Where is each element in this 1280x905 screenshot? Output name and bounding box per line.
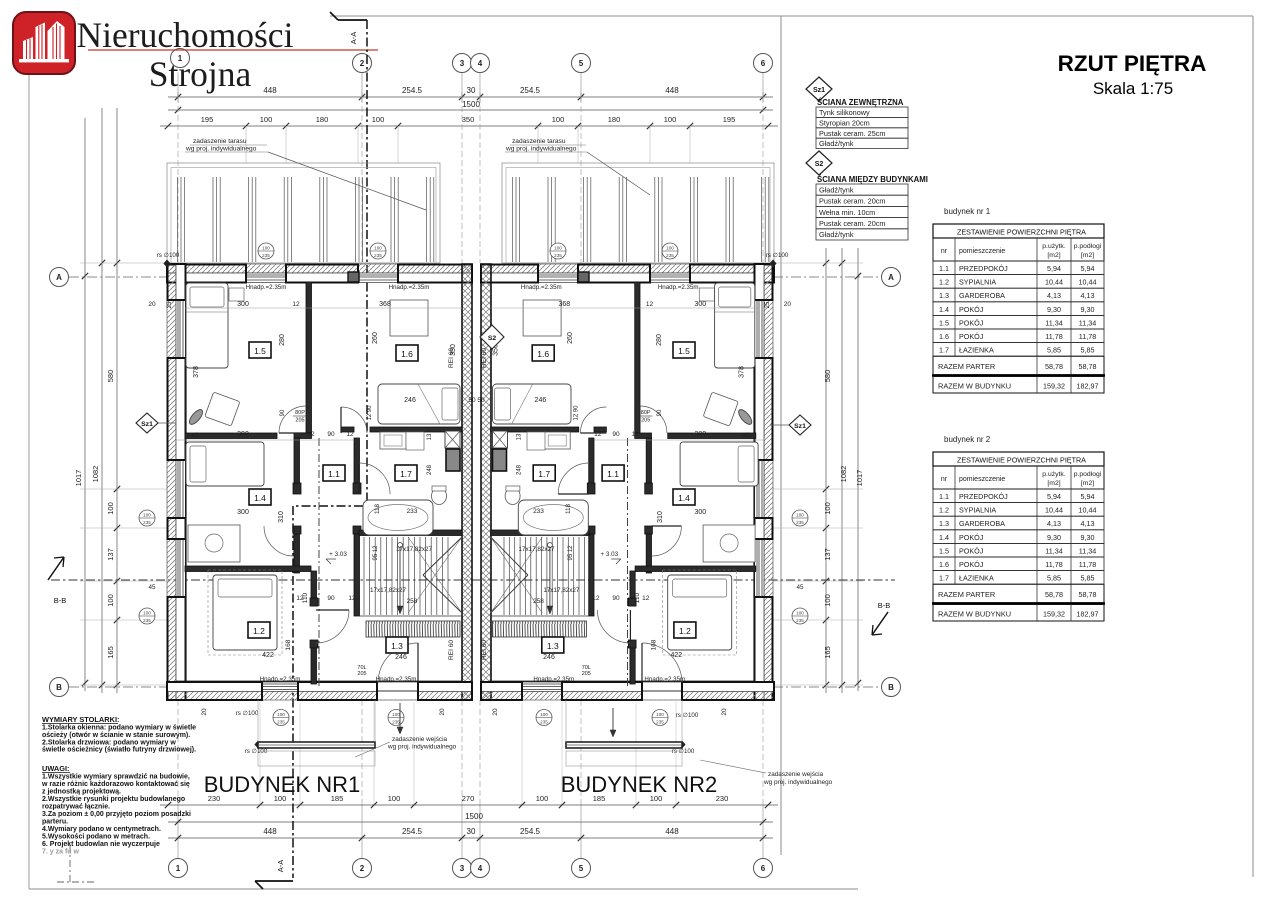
staircase winder chevron building 1 xyxy=(423,537,462,575)
svg-text:parteru.: parteru. xyxy=(42,819,68,826)
svg-text:235: 235 xyxy=(666,253,674,258)
top exterior wall building 1 insulation band xyxy=(167,264,472,273)
svg-text:p.użytk.: p.użytk. xyxy=(1042,471,1066,478)
svg-text:z jednostką projektową.: z jednostką projektową. xyxy=(42,789,121,796)
entrance canopy label building 2 xyxy=(700,760,766,773)
svg-text:378: 378 xyxy=(193,366,200,378)
svg-text:5,85: 5,85 xyxy=(1081,574,1095,583)
svg-text:1.1: 1.1 xyxy=(939,492,949,501)
svg-text:1.2: 1.2 xyxy=(939,506,949,515)
bottom dimension row 1500 xyxy=(168,821,773,823)
logo building icon xyxy=(19,21,69,62)
svg-text:448: 448 xyxy=(665,86,679,95)
svg-text:ŁAZIENKA: ŁAZIENKA xyxy=(959,346,994,355)
plant room 1.5 building 1 xyxy=(187,408,205,427)
svg-text:195: 195 xyxy=(201,115,214,124)
svg-text:rozpatrywać łącznie.: rozpatrywać łącznie. xyxy=(42,804,110,811)
svg-text:12: 12 xyxy=(346,431,354,438)
Sz1 marker right with leader xyxy=(789,415,811,435)
svg-text:1.2: 1.2 xyxy=(679,626,691,636)
svg-text:80P: 80P xyxy=(295,410,305,416)
bed room 1.5 building 2 xyxy=(715,283,755,368)
room label 1.6 building 1 xyxy=(396,345,418,361)
svg-text:80P: 80P xyxy=(641,410,651,416)
svg-text:Skala 1:75: Skala 1:75 xyxy=(1093,79,1173,98)
svg-text:90: 90 xyxy=(612,595,620,602)
room label 1.2 building 1 xyxy=(248,622,270,638)
room label 1.3 building 1 xyxy=(386,637,408,653)
svg-text:Tynk silikonowy: Tynk silikonowy xyxy=(819,108,870,117)
svg-text:5: 5 xyxy=(579,864,584,873)
right exterior wall insulation band xyxy=(764,264,773,700)
svg-text:4,13: 4,13 xyxy=(1047,291,1061,300)
room label 1.6 building 2 xyxy=(532,345,554,361)
right wall pier xyxy=(755,358,773,460)
svg-text:90: 90 xyxy=(657,409,663,416)
svg-text:235: 235 xyxy=(374,253,382,258)
grid circle 1 top (behind logo text) xyxy=(171,49,190,68)
partition wall below room 1.5 building 2 xyxy=(668,433,756,439)
chair room 1.5 building 2 xyxy=(703,392,738,426)
svg-text:205: 205 xyxy=(641,418,650,424)
svg-text:100: 100 xyxy=(823,502,832,515)
svg-text:Pustak ceram. 25cm: Pustak ceram. 25cm xyxy=(819,129,886,138)
wall pier building 1 xyxy=(398,265,472,283)
svg-text:PRZEDPOKÓJ: PRZEDPOKÓJ xyxy=(959,264,1008,273)
window in left wall xyxy=(177,460,179,518)
svg-text:230: 230 xyxy=(716,794,729,803)
svg-text:58,78: 58,78 xyxy=(1079,362,1097,371)
svg-text:118: 118 xyxy=(374,503,381,514)
washbasin bathroom building 1 xyxy=(380,432,406,449)
room label 1.5 building 2 xyxy=(673,342,695,358)
svg-text:12: 12 xyxy=(631,431,639,438)
svg-text:A-A: A-A xyxy=(276,860,285,873)
svg-text:100: 100 xyxy=(666,246,674,251)
desk room 1.4 building 1 xyxy=(188,525,240,562)
door arc room 1.4 building 2 xyxy=(651,526,681,556)
svg-text:Gładź/tynk: Gładź/tynk xyxy=(819,230,854,239)
sheet frame left border (leader from logo) xyxy=(28,74,30,889)
svg-text:168: 168 xyxy=(285,639,292,650)
room label 1.3 building 2 xyxy=(542,637,564,653)
entrance arrow building 2 xyxy=(612,708,614,730)
svg-text:258: 258 xyxy=(407,598,418,605)
bottom wall pier building 2 xyxy=(562,682,642,700)
svg-text:1.4: 1.4 xyxy=(678,493,690,503)
svg-text:254.5: 254.5 xyxy=(520,86,541,95)
svg-text:ŚCIANA ZEWNĘTRZNA: ŚCIANA ZEWNĘTRZNA xyxy=(817,98,904,107)
entrance arrow building 1 xyxy=(399,703,401,727)
svg-text:RZUT PIĘTRA: RZUT PIĘTRA xyxy=(1058,51,1207,76)
svg-text:90: 90 xyxy=(280,409,286,416)
svg-text:2: 2 xyxy=(360,864,365,873)
bathtub bathroom building 2 xyxy=(518,500,588,535)
svg-text:246: 246 xyxy=(543,654,555,661)
bed room 1.2 building 2 xyxy=(668,575,732,650)
room label 1.5 building 1 xyxy=(249,342,271,358)
window pier detail squares near centre xyxy=(348,272,359,282)
bottom dimension row 230/100/185/100/270/100/185/100/230 xyxy=(160,804,778,806)
svg-text:A: A xyxy=(888,273,894,282)
wall pier building 2 xyxy=(690,265,774,283)
svg-text:[m2]: [m2] xyxy=(1081,480,1094,487)
terrace decking boards building 2 xyxy=(511,177,513,262)
svg-text:1.4: 1.4 xyxy=(939,533,949,542)
desk room 1.4 building 2 xyxy=(703,525,755,562)
plant room 1.5 building 2 xyxy=(736,408,754,427)
svg-text:1.2: 1.2 xyxy=(939,278,949,287)
svg-text:+ 3.03: + 3.03 xyxy=(329,551,347,558)
extension stubs top dimension ticks xyxy=(245,126,247,163)
svg-text:4.Wymiary podano w centymetrac: 4.Wymiary podano w centymetrach. xyxy=(42,826,161,833)
svg-text:Pustak ceram. 20cm: Pustak ceram. 20cm xyxy=(819,197,886,206)
svg-text:rs ∅100: rs ∅100 xyxy=(672,748,695,755)
svg-text:Wełna min. 10cm: Wełna min. 10cm xyxy=(819,208,875,217)
svg-text:Gładź/tynk: Gładź/tynk xyxy=(819,185,854,194)
stairs bottom line building 2 xyxy=(491,615,590,617)
svg-text:12: 12 xyxy=(642,595,650,602)
partition wall bathroom below building 1 xyxy=(359,530,462,536)
svg-text:1.1: 1.1 xyxy=(939,264,949,273)
svg-text:280: 280 xyxy=(656,334,663,346)
svg-text:wg proj. indywidualnego: wg proj. indywidualnego xyxy=(185,146,257,153)
svg-text:1.4: 1.4 xyxy=(254,493,266,503)
grid extension lines top xyxy=(177,73,179,98)
svg-text:ZESTAWIENIE POWIERZCHNI PIĘT: ZESTAWIENIE POWIERZCHNI PIĘTRA xyxy=(957,456,1086,465)
svg-text:20: 20 xyxy=(439,708,446,716)
svg-text:270: 270 xyxy=(462,794,475,803)
svg-text:300: 300 xyxy=(694,301,706,308)
dark appliance bathroom building 2 xyxy=(493,449,507,471)
svg-text:RAZEM PARTER: RAZEM PARTER xyxy=(938,590,995,599)
svg-text:POKÓJ: POKÓJ xyxy=(959,546,984,555)
svg-text:1.Wszystkie wymiary sprawdzić: 1.Wszystkie wymiary sprawdzić na budowie… xyxy=(42,774,190,781)
svg-text:RAZEM PARTER: RAZEM PARTER xyxy=(938,362,995,371)
room label 1.7 building 1 xyxy=(395,465,417,481)
partition wall hall / bathroom and stairs building 1 xyxy=(354,438,360,483)
svg-text:235: 235 xyxy=(796,618,804,623)
svg-text:11,34: 11,34 xyxy=(1045,318,1062,327)
svg-text:pomieszczenie: pomieszczenie xyxy=(959,476,1005,483)
svg-text:wg proj. indywidualnego: wg proj. indywidualnego xyxy=(763,779,833,786)
svg-text:235: 235 xyxy=(796,520,804,525)
interior face line right wall building 2 xyxy=(753,282,755,682)
svg-text:310: 310 xyxy=(278,511,285,523)
svg-text:235: 235 xyxy=(656,720,664,725)
svg-text:p.podłogi: p.podłogi xyxy=(1074,471,1102,478)
svg-text:11,78: 11,78 xyxy=(1045,332,1062,341)
room label 1.7 building 2 xyxy=(533,465,555,481)
svg-text:5,85: 5,85 xyxy=(1047,574,1061,583)
svg-text:378: 378 xyxy=(738,366,745,378)
svg-text:ŚCIANA MIĘDZY BUDYNKAMI: ŚCIANA MIĘDZY BUDYNKAMI xyxy=(817,175,928,184)
svg-text:580: 580 xyxy=(823,370,832,383)
svg-text:PRZEDPOKÓJ: PRZEDPOKÓJ xyxy=(959,492,1008,501)
svg-text:zadaszenie tarasu: zadaszenie tarasu xyxy=(512,138,566,145)
svg-text:3.Za poziom ± 0,00 przyjęto po: 3.Za poziom ± 0,00 przyjęto poziom posad… xyxy=(42,811,191,818)
svg-text:Hnadp.=2.35m: Hnadp.=2.35m xyxy=(521,284,562,291)
svg-text:260: 260 xyxy=(567,332,574,344)
interior dimension row y438 building 1 xyxy=(176,439,354,441)
svg-text:Hnadp.=2.35m: Hnadp.=2.35m xyxy=(246,284,287,291)
svg-text:17x17,82x27: 17x17,82x27 xyxy=(543,587,580,594)
svg-text:Strojna: Strojna xyxy=(149,54,252,94)
window marker circles left and right walls xyxy=(139,510,155,526)
shower crossed square bathroom building 1 xyxy=(445,431,460,448)
entrance canopy building 1 xyxy=(258,742,375,748)
svg-text:137: 137 xyxy=(823,548,832,561)
svg-text:2: 2 xyxy=(360,59,365,68)
svg-text:1017: 1017 xyxy=(74,470,83,487)
svg-text:448: 448 xyxy=(263,86,277,95)
svg-text:Nieruchomości: Nieruchomości xyxy=(77,15,294,55)
svg-text:246: 246 xyxy=(535,397,547,404)
svg-text:17x17,82x27: 17x17,82x27 xyxy=(396,546,433,553)
svg-text:100: 100 xyxy=(262,246,270,251)
svg-text:4,13: 4,13 xyxy=(1081,291,1095,300)
svg-text:12 90: 12 90 xyxy=(367,405,373,421)
svg-text:165: 165 xyxy=(106,646,115,659)
wall pier building 2 xyxy=(481,265,538,283)
right dimension extension lines xyxy=(773,262,863,264)
svg-text:GARDEROBA: GARDEROBA xyxy=(959,291,1005,300)
svg-text:A-A: A-A xyxy=(349,32,358,45)
svg-text:248: 248 xyxy=(516,464,522,475)
left wall pier xyxy=(168,264,186,300)
desk room 1.6 building 1 xyxy=(390,300,428,336)
grid extension lines bottom xyxy=(177,700,179,805)
svg-text:25: 25 xyxy=(765,301,771,308)
svg-text:świetle ościeżnicy (światło fu: świetle ościeżnicy (światło futryny drzw… xyxy=(42,747,196,754)
svg-text:1.6: 1.6 xyxy=(401,349,413,359)
svg-text:4: 4 xyxy=(478,864,483,873)
svg-text:4: 4 xyxy=(478,59,483,68)
door arc room 1.2 building 2 xyxy=(597,610,630,643)
washbasin bathroom building 2 xyxy=(544,432,570,449)
partition wall hall / bathroom and stairs building 2 xyxy=(589,438,594,483)
svg-text:100: 100 xyxy=(536,794,549,803)
svg-text:11,78: 11,78 xyxy=(1045,560,1062,569)
svg-text:280: 280 xyxy=(279,334,286,346)
area table for budynek nr 1 xyxy=(933,224,1104,238)
stairs bottom line building 1 xyxy=(359,615,462,617)
svg-text:20: 20 xyxy=(148,301,156,308)
svg-text:1017: 1017 xyxy=(855,470,864,487)
grid circles bottom xyxy=(169,859,188,878)
grid circles top xyxy=(353,54,372,73)
svg-text:168: 168 xyxy=(650,639,657,650)
svg-text:180: 180 xyxy=(608,115,621,124)
svg-text:POKÓJ: POKÓJ xyxy=(959,560,984,569)
svg-text:165: 165 xyxy=(823,646,832,659)
svg-text:422: 422 xyxy=(670,652,682,659)
bottom exterior wall building 1 insulation band xyxy=(167,691,472,700)
partition wall below room 1.6 building 1 xyxy=(341,427,354,432)
interior dimension row y438 building 2 xyxy=(594,439,764,441)
svg-text:B-B: B-B xyxy=(878,601,891,610)
svg-text:235: 235 xyxy=(540,720,548,725)
window in bottom wall building 2 xyxy=(522,683,562,685)
central party wall building 2 side xyxy=(481,264,491,700)
svg-text:4,13: 4,13 xyxy=(1081,519,1095,528)
svg-text:254.5: 254.5 xyxy=(520,827,541,836)
entrance door arc building 1 xyxy=(378,643,418,683)
entrance canopy label building 1 xyxy=(355,742,390,757)
svg-text:REI 60: REI 60 xyxy=(481,348,488,368)
svg-text:20: 20 xyxy=(784,301,792,308)
svg-text:100: 100 xyxy=(664,115,677,124)
section line B-B xyxy=(51,579,895,581)
right wall pier xyxy=(755,518,773,539)
room label 1.1 building 1 xyxy=(323,465,345,481)
sheet frame bottom border xyxy=(29,888,858,890)
washer bathroom building 2 xyxy=(527,432,545,450)
svg-text:zadaszenie tarasu: zadaszenie tarasu xyxy=(193,138,247,145)
svg-text:1.3: 1.3 xyxy=(391,641,403,651)
sheet frame divider between plan and tables xyxy=(780,16,782,855)
room label 1.2 building 2 xyxy=(674,622,696,638)
svg-text:1.2: 1.2 xyxy=(253,626,265,636)
entrance door arc building 2 xyxy=(642,643,682,683)
svg-text:9,30: 9,30 xyxy=(1047,533,1061,542)
svg-text:45: 45 xyxy=(148,584,156,591)
chair room 1.5 building 1 xyxy=(205,392,240,426)
extension lines at bottom dimension ticks xyxy=(259,702,261,805)
bottom wall pier building 1 xyxy=(298,682,377,700)
svg-text:6. Projekt budowlan nie wycz: 6. Projekt budowlan nie wyczerpuje xyxy=(42,841,160,848)
svg-text:1.6: 1.6 xyxy=(537,349,549,359)
left vertical dimension line 580/100/137/100/165 xyxy=(116,108,118,693)
svg-text:GARDEROBA: GARDEROBA xyxy=(959,519,1005,528)
staircase treads building 2 xyxy=(583,537,585,615)
svg-text:100: 100 xyxy=(554,246,562,251)
svg-text:235: 235 xyxy=(554,253,562,258)
svg-text:350: 350 xyxy=(462,115,475,124)
svg-text:100: 100 xyxy=(374,246,382,251)
left wall pier xyxy=(168,518,186,539)
svg-text:REI 60: REI 60 xyxy=(448,640,455,660)
svg-text:1.7: 1.7 xyxy=(939,574,949,583)
right vertical dimension line 580/100/137/100/165 xyxy=(825,248,827,693)
svg-text:25: 25 xyxy=(167,301,173,308)
sheet frame right border xyxy=(1252,16,1254,877)
svg-text:1.7: 1.7 xyxy=(939,346,949,355)
row axis B circles and dash line xyxy=(50,678,69,697)
svg-text:100: 100 xyxy=(796,611,804,616)
window in top wall building 2 xyxy=(538,274,578,276)
svg-text:205: 205 xyxy=(295,418,304,424)
bathtub bathroom building 1 xyxy=(363,500,433,535)
svg-text:10,44: 10,44 xyxy=(1045,278,1063,287)
svg-text:Hnadp.=2.35m: Hnadp.=2.35m xyxy=(260,676,301,683)
top dimension row 1500 xyxy=(168,109,773,111)
washer bathroom building 1 xyxy=(406,432,424,450)
svg-text:3: 3 xyxy=(460,864,465,873)
top dimension row 195/100/180/100/350/100/180/100/195 xyxy=(160,125,778,127)
svg-text:1500: 1500 xyxy=(462,100,480,109)
svg-text:S2: S2 xyxy=(815,161,824,168)
svg-text:12: 12 xyxy=(348,595,356,602)
svg-text:ościeży (otwór w ścianie w sta: ościeży (otwór w ścianie w stanie surowy… xyxy=(42,732,190,739)
left exterior wall insulation band xyxy=(167,264,176,700)
svg-text:Hnadp.=2.35m: Hnadp.=2.35m xyxy=(644,676,685,683)
svg-text:1.3: 1.3 xyxy=(939,291,949,300)
svg-text:11,34: 11,34 xyxy=(1079,318,1096,327)
right vertical dimension line 1082 xyxy=(841,248,843,693)
svg-text:50: 50 xyxy=(468,397,476,404)
Sz1 marker left with leader xyxy=(136,413,158,433)
svg-text:1: 1 xyxy=(176,864,181,873)
svg-text:12 90: 12 90 xyxy=(574,405,580,421)
svg-text:246: 246 xyxy=(395,654,407,661)
svg-text:B-B: B-B xyxy=(54,596,67,605)
svg-text:1082: 1082 xyxy=(91,466,100,483)
bottom dimension row 448/254.5/30/254.5/448 xyxy=(168,837,773,839)
svg-text:7. y za fu: 7. y za fu w xyxy=(42,849,80,856)
svg-text:w razie różnic każdorazowo ko: w razie różnic każdorazowo kontaktować s… xyxy=(41,781,190,788)
left dimension extension lines xyxy=(80,262,167,264)
svg-text:100: 100 xyxy=(796,513,804,518)
svg-text:45: 45 xyxy=(743,432,751,439)
svg-text:POKÓJ: POKÓJ xyxy=(959,533,984,542)
svg-text:310: 310 xyxy=(657,511,664,523)
central party wall building 1 side xyxy=(462,264,472,700)
interior face line left wall building 1 xyxy=(185,282,187,682)
svg-text:3: 3 xyxy=(460,59,465,68)
interior dimension row y306 building 1 xyxy=(185,307,462,309)
svg-text:Sz1: Sz1 xyxy=(813,87,825,94)
svg-text:100: 100 xyxy=(143,513,151,518)
partition wall below room 1.6 building 2 xyxy=(594,427,606,432)
svg-text:5,85: 5,85 xyxy=(1081,346,1095,355)
svg-text:1500: 1500 xyxy=(465,812,483,821)
svg-text:1.1: 1.1 xyxy=(607,469,619,479)
room label 1.1 building 2 xyxy=(602,465,624,481)
svg-text:[m2]: [m2] xyxy=(1047,480,1060,487)
svg-text:182,97: 182,97 xyxy=(1077,610,1099,619)
door arc bathroom 1.7 building 2 xyxy=(558,463,589,494)
svg-text:UWAGI:: UWAGI: xyxy=(42,764,70,773)
svg-text:100: 100 xyxy=(143,611,151,616)
bed room 1.2 building 1 xyxy=(213,575,277,650)
row axis A circles and dash line xyxy=(50,268,69,287)
svg-text:580: 580 xyxy=(106,370,115,383)
svg-text:p.podłogi: p.podłogi xyxy=(1074,243,1102,250)
svg-text:rs ∅100: rs ∅100 xyxy=(245,748,268,755)
svg-text:58,78: 58,78 xyxy=(1045,362,1063,371)
left vertical dimension line 1017 xyxy=(84,118,86,691)
right wall pier xyxy=(755,264,773,300)
svg-text:90: 90 xyxy=(327,595,335,602)
dark appliance bathroom building 1 xyxy=(446,449,460,471)
svg-text:110: 110 xyxy=(302,592,309,603)
partition wall between rooms 1.5 and 1.6 building 2 xyxy=(635,282,640,433)
svg-text:11,34: 11,34 xyxy=(1045,546,1062,555)
svg-text:448: 448 xyxy=(665,827,679,836)
svg-text:180: 180 xyxy=(316,115,329,124)
logo red rounded square xyxy=(13,12,75,74)
svg-text:195: 195 xyxy=(723,115,736,124)
svg-text:50: 50 xyxy=(477,397,485,404)
bottom wall pier building 1 xyxy=(418,682,472,700)
svg-text:B: B xyxy=(56,683,62,692)
svg-text:4,13: 4,13 xyxy=(1047,519,1061,528)
legend S2 table xyxy=(816,184,908,195)
svg-text:20: 20 xyxy=(492,708,499,716)
svg-text:235: 235 xyxy=(143,618,151,623)
svg-text:WYMIARY STOLARKI:: WYMIARY STOLARKI: xyxy=(42,715,119,724)
